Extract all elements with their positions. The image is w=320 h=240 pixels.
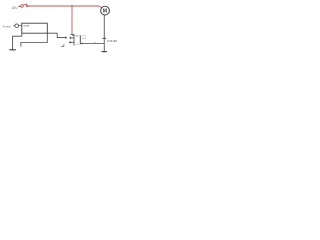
- node cross at rail left: [81, 43, 83, 45]
- diode D1: [103, 37, 107, 39]
- wire switch left lead: [18, 5, 20, 7]
- wire terminal to U1: [18, 25, 22, 27]
- wire motor to rail: [103, 15, 105, 44]
- wire Q1 lower pin stub: [69, 41, 73, 43]
- ground left: [9, 50, 16, 51]
- wire red top rail: [28, 5, 99, 7]
- wire bottom rail: [81, 43, 105, 45]
- node junction on rail: [71, 5, 73, 7]
- transistor Q1 body: [74, 35, 81, 45]
- node cross pin1: [65, 37, 71, 40]
- label pin names: [82, 35, 87, 40]
- wire U1 to Q1 base: [47, 33, 73, 38]
- wire red diagonal to motor: [98, 6, 102, 8]
- svg-text:out2: out2: [82, 37, 87, 40]
- wire red vertical drop: [71, 6, 73, 34]
- terminal circle: [15, 24, 19, 28]
- svg-text:1N4148: 1N4148: [107, 39, 118, 43]
- wire U1 to ground left: [13, 33, 22, 49]
- wire ground drop: [103, 44, 105, 52]
- svg-text:18V: 18V: [12, 6, 19, 10]
- motor M1: [101, 6, 110, 15]
- switch S1: [21, 4, 28, 7]
- label r mark: [61, 44, 64, 46]
- wire U1 bottom L: [21, 33, 47, 46]
- ground right: [101, 52, 107, 53]
- wire jog to Q1 top: [71, 35, 75, 37]
- node tick on rail: [94, 42, 96, 43]
- svg-text:M: M: [103, 8, 107, 14]
- svg-text:word: word: [24, 23, 30, 27]
- node cross pin2: [69, 41, 71, 43]
- svg-text:A-real: A-real: [3, 25, 11, 29]
- wire terminal left lead: [13, 25, 15, 27]
- module U1: [22, 23, 48, 33]
